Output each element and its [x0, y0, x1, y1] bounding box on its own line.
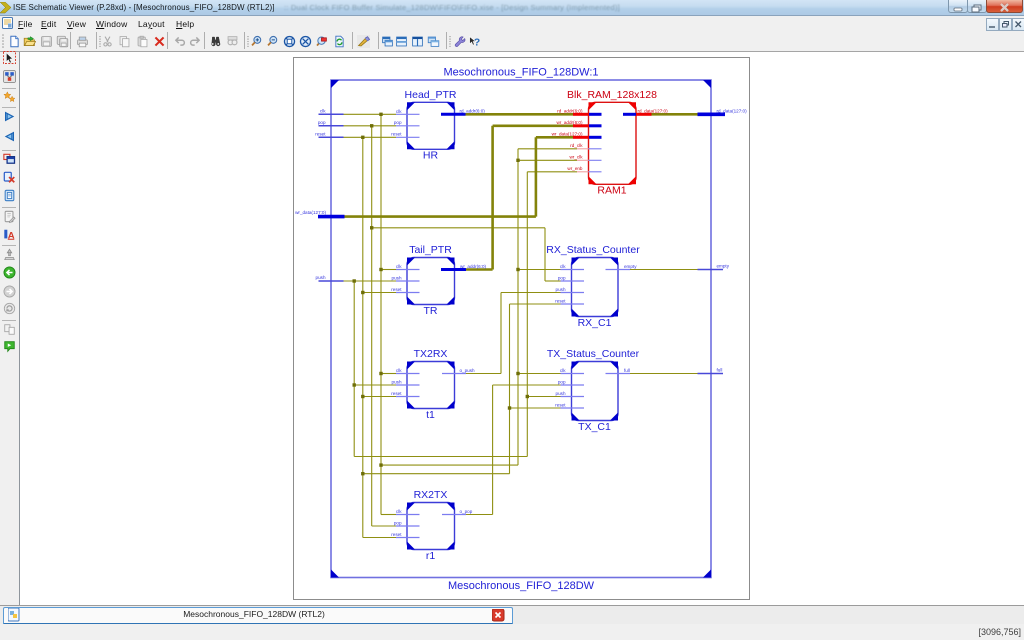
wire pop trunk vertical: [371, 126, 373, 526]
wire clk trunk vertical: [380, 114, 382, 514]
pin RX_C1 pop: [561, 280, 585, 282]
pin TR clk: [396, 269, 420, 271]
pin RX_C1 reset: [561, 303, 585, 305]
junction reset: [508, 406, 511, 409]
block TX2RX t1: [407, 362, 455, 409]
svg-text:push: push: [316, 275, 326, 280]
pin TR reset: [396, 292, 420, 294]
svg-text:empty: empty: [624, 264, 637, 269]
svg-text:Mesochronous_FIFO_128DW: Mesochronous_FIFO_128DW: [448, 580, 595, 592]
block RX2TX r1: [407, 503, 455, 550]
svg-text:TX_C1: TX_C1: [578, 421, 611, 433]
svg-text:rd_addr(6:0): rd_addr(6:0): [460, 109, 486, 114]
wire o_pop vertical: [492, 385, 494, 515]
svg-text:HR: HR: [423, 150, 439, 162]
pin TX_C1 push: [561, 396, 585, 398]
pin t1 o_push: [442, 373, 466, 375]
svg-text:wr_enb: wr_enb: [567, 166, 583, 171]
junction clk: [379, 463, 382, 466]
svg-text:Tail_PTR: Tail_PTR: [409, 244, 452, 256]
junction clk: [516, 268, 519, 271]
port clk: [319, 113, 344, 115]
wire clk to RX_C1: [518, 269, 561, 271]
wire push to TX_C1: [527, 396, 560, 398]
svg-text:clk: clk: [396, 264, 402, 269]
block Head_PTR HR: [407, 102, 455, 149]
pin HR pop: [396, 125, 420, 127]
wire reset to TX_C1: [510, 407, 561, 409]
junction clk: [379, 113, 382, 116]
pin HR clk: [396, 113, 420, 115]
wire clk to t1: [381, 373, 396, 375]
junction reset: [361, 395, 364, 398]
wire push to t1: [354, 384, 396, 386]
wire o_push to RX_C1 push: [501, 292, 561, 294]
block Tail_PTR TR: [407, 258, 455, 305]
pin RAM1 rd_addr(6:0): [573, 113, 589, 116]
wire reset trunk vertical: [362, 137, 364, 537]
junction reset: [361, 291, 364, 294]
svg-text:full: full: [624, 368, 630, 373]
junction pop: [370, 124, 373, 127]
svg-text:reset: reset: [315, 131, 326, 136]
bus rd_addr(6:0) HR to RAM: [466, 113, 574, 116]
junction clk: [516, 159, 519, 162]
bus rd_data(127:0) RAM to port: [652, 113, 698, 116]
wire push link horizontal: [354, 456, 527, 458]
ISE logo: [0, 2, 12, 14]
svg-text:pop: pop: [558, 275, 566, 280]
svg-text:rd_clk: rd_clk: [570, 143, 583, 148]
wire clk to RAM rd_clk: [518, 148, 577, 150]
svg-text:TX2RX: TX2RX: [414, 348, 448, 360]
pin r1 reset: [396, 537, 420, 539]
pin RAM1 wr_addr(6:0): [573, 124, 589, 127]
bus wr_data(127:0) vertical: [535, 137, 538, 216]
wire push right vertical: [526, 172, 528, 457]
wire clk right vertical: [517, 149, 519, 465]
pin HR rd_addr(6:0) bus: [441, 113, 466, 116]
wire o_push vertical: [500, 293, 502, 374]
junction push: [526, 395, 529, 398]
svg-text:wr_data(127:0): wr_data(127:0): [552, 132, 583, 137]
port wr_data(127:0): [318, 215, 345, 219]
wire pop link horizontal: [372, 227, 545, 229]
svg-text:pop: pop: [394, 120, 402, 125]
pin t1 reset: [396, 396, 420, 398]
bottom tab bar: [0, 605, 1024, 625]
wire reset to r1: [363, 537, 396, 539]
wire o_pop to TX_C1 pop: [493, 384, 561, 386]
junction clk: [379, 268, 382, 271]
menu bar: [0, 16, 1024, 31]
pin r1 pop: [396, 525, 420, 527]
junction clk: [379, 372, 382, 375]
schematic sheet: [294, 58, 750, 600]
wire clk to TR: [381, 269, 396, 271]
pin r1 o_pop: [442, 514, 466, 516]
svg-text:RAM1: RAM1: [597, 185, 626, 197]
junction push: [353, 279, 356, 282]
svg-text:pop: pop: [394, 520, 402, 525]
bus wr_data(127:0) to RAM: [536, 136, 573, 139]
wire reset to t1: [363, 396, 396, 398]
port reset: [319, 136, 344, 138]
svg-text:TX_Status_Counter: TX_Status_Counter: [547, 348, 640, 360]
wire reset right vertical: [509, 304, 511, 474]
sidebar: [0, 52, 20, 605]
wire o_pop horizontal from r1: [466, 514, 493, 516]
wire push from port to TR: [344, 280, 397, 282]
port pop: [319, 125, 344, 127]
pin RX_C1 push: [561, 292, 585, 294]
svg-text:wr_data(127:0): wr_data(127:0): [295, 210, 326, 215]
wire push to RAM wr_enb: [527, 171, 577, 173]
wire reset to TR: [363, 292, 396, 294]
wire full TX_C1 to port: [630, 373, 698, 375]
pin TR wr_addr(6:0) bus: [441, 268, 466, 271]
svg-text:push: push: [392, 379, 402, 384]
pin t1 clk: [396, 373, 420, 375]
wire pop from port to HR: [344, 125, 397, 127]
wire push trunk vertical: [353, 281, 355, 457]
pin RAM1 rd_data(127:0): [623, 113, 636, 116]
svg-text:clk: clk: [396, 109, 402, 114]
wire clk to RAM wr_clk: [518, 159, 577, 161]
wire empty RX_C1 to port: [630, 269, 698, 271]
pin TX_C1 pop: [561, 384, 585, 386]
bus wr_addr(6:0) to RAM: [493, 125, 573, 128]
wire pop to RX_C1: [545, 280, 561, 282]
module boundary Mesochronous_FIFO_128DW: [331, 80, 711, 578]
svg-text:TR: TR: [424, 305, 438, 317]
wire pop to r1: [372, 525, 396, 527]
junction reset: [361, 136, 364, 139]
pin RAM1 wr_enb: [577, 171, 589, 173]
wire clk from port to HR: [344, 113, 397, 115]
svg-text:reset: reset: [555, 402, 566, 407]
wire reset link horizontal: [363, 473, 510, 475]
pin TX_C1 clk: [561, 373, 585, 375]
svg-text:clk: clk: [560, 264, 566, 269]
svg-text:Mesochronous_FIFO_128DW:1: Mesochronous_FIFO_128DW:1: [443, 67, 598, 79]
svg-text:rd_data(127:0): rd_data(127:0): [717, 108, 748, 113]
junction push: [353, 383, 356, 386]
svg-text:t1: t1: [426, 409, 435, 421]
svg-text:r1: r1: [426, 550, 435, 562]
svg-text:empty: empty: [717, 264, 730, 269]
bus wr_addr(6:0) horizontal from TR: [466, 268, 493, 271]
svg-text:push: push: [392, 275, 402, 280]
junction clk: [516, 372, 519, 375]
wire clk to TX_C1: [518, 373, 561, 375]
svg-text:pop: pop: [558, 379, 566, 384]
svg-text:Blk_RAM_128x128: Blk_RAM_128x128: [567, 89, 657, 101]
pin RAM1 wr_data(127:0): [573, 136, 589, 139]
svg-text:o_push: o_push: [460, 368, 476, 373]
svg-text:wr_addr(6:0): wr_addr(6:0): [460, 264, 487, 269]
junction reset: [361, 472, 364, 475]
bus wr_addr(6:0) vertical: [491, 126, 494, 270]
pin TX_C1 reset: [561, 407, 585, 409]
wire pop right vertical: [544, 228, 546, 281]
toolbar: [0, 31, 1024, 52]
pin RX_C1 clk: [561, 269, 585, 271]
pin RAM1 rd_clk: [577, 148, 589, 150]
pin TR push: [396, 280, 420, 282]
svg-text:reset: reset: [391, 391, 402, 396]
svg-text:push: push: [556, 287, 566, 292]
wire clk to r1: [381, 514, 396, 516]
junction pop: [370, 226, 373, 229]
svg-text:full: full: [717, 368, 723, 373]
svg-text:clk: clk: [396, 368, 402, 373]
svg-text:Head_PTR: Head_PTR: [405, 89, 457, 101]
svg-text:wr_clk: wr_clk: [569, 155, 583, 160]
port empty: [698, 269, 724, 271]
svg-text:clk: clk: [320, 108, 326, 113]
pin r1 clk: [396, 514, 420, 516]
svg-text:push: push: [556, 391, 566, 396]
block Blk_RAM_128x128 RAM1: [589, 102, 637, 184]
pin RAM1 wr_clk: [577, 159, 589, 161]
pin RX_C1 empty: [606, 269, 631, 271]
wire reset from port to HR: [344, 136, 397, 138]
wire o_push horizontal from t1: [466, 373, 501, 375]
wire clk link horizontal: [381, 464, 518, 466]
svg-text:o_pop: o_pop: [460, 509, 473, 514]
svg-text:wr_addr(6:0): wr_addr(6:0): [556, 120, 583, 125]
block RX_Status_Counter RX_C1: [572, 258, 619, 317]
port rd_data(127:0): [698, 113, 726, 117]
pin HR reset: [396, 136, 420, 138]
pin t1 push: [396, 384, 420, 386]
svg-text:reset: reset: [391, 132, 402, 137]
bus wr_data(127:0) horizontal from port: [345, 215, 536, 218]
port push: [319, 280, 344, 282]
wire reset to RX_C1: [510, 303, 561, 305]
svg-text:pop: pop: [318, 120, 326, 125]
svg-text:reset: reset: [391, 532, 402, 537]
svg-text:clk: clk: [396, 509, 402, 514]
svg-text:RX2TX: RX2TX: [414, 489, 448, 501]
svg-text:clk: clk: [560, 368, 566, 373]
block TX_Status_Counter TX_C1: [572, 362, 619, 421]
svg-text:rd_data(127:0): rd_data(127:0): [638, 109, 669, 114]
svg-text:RX_C1: RX_C1: [578, 317, 612, 329]
port full: [698, 373, 724, 375]
svg-text:reset: reset: [391, 287, 402, 292]
svg-text:reset: reset: [555, 298, 566, 303]
title bar: [0, 0, 1024, 16]
svg-text:RX_Status_Counter: RX_Status_Counter: [546, 244, 640, 256]
pin TX_C1 full: [606, 373, 631, 375]
svg-text:rd_addr(6:0): rd_addr(6:0): [557, 109, 583, 114]
